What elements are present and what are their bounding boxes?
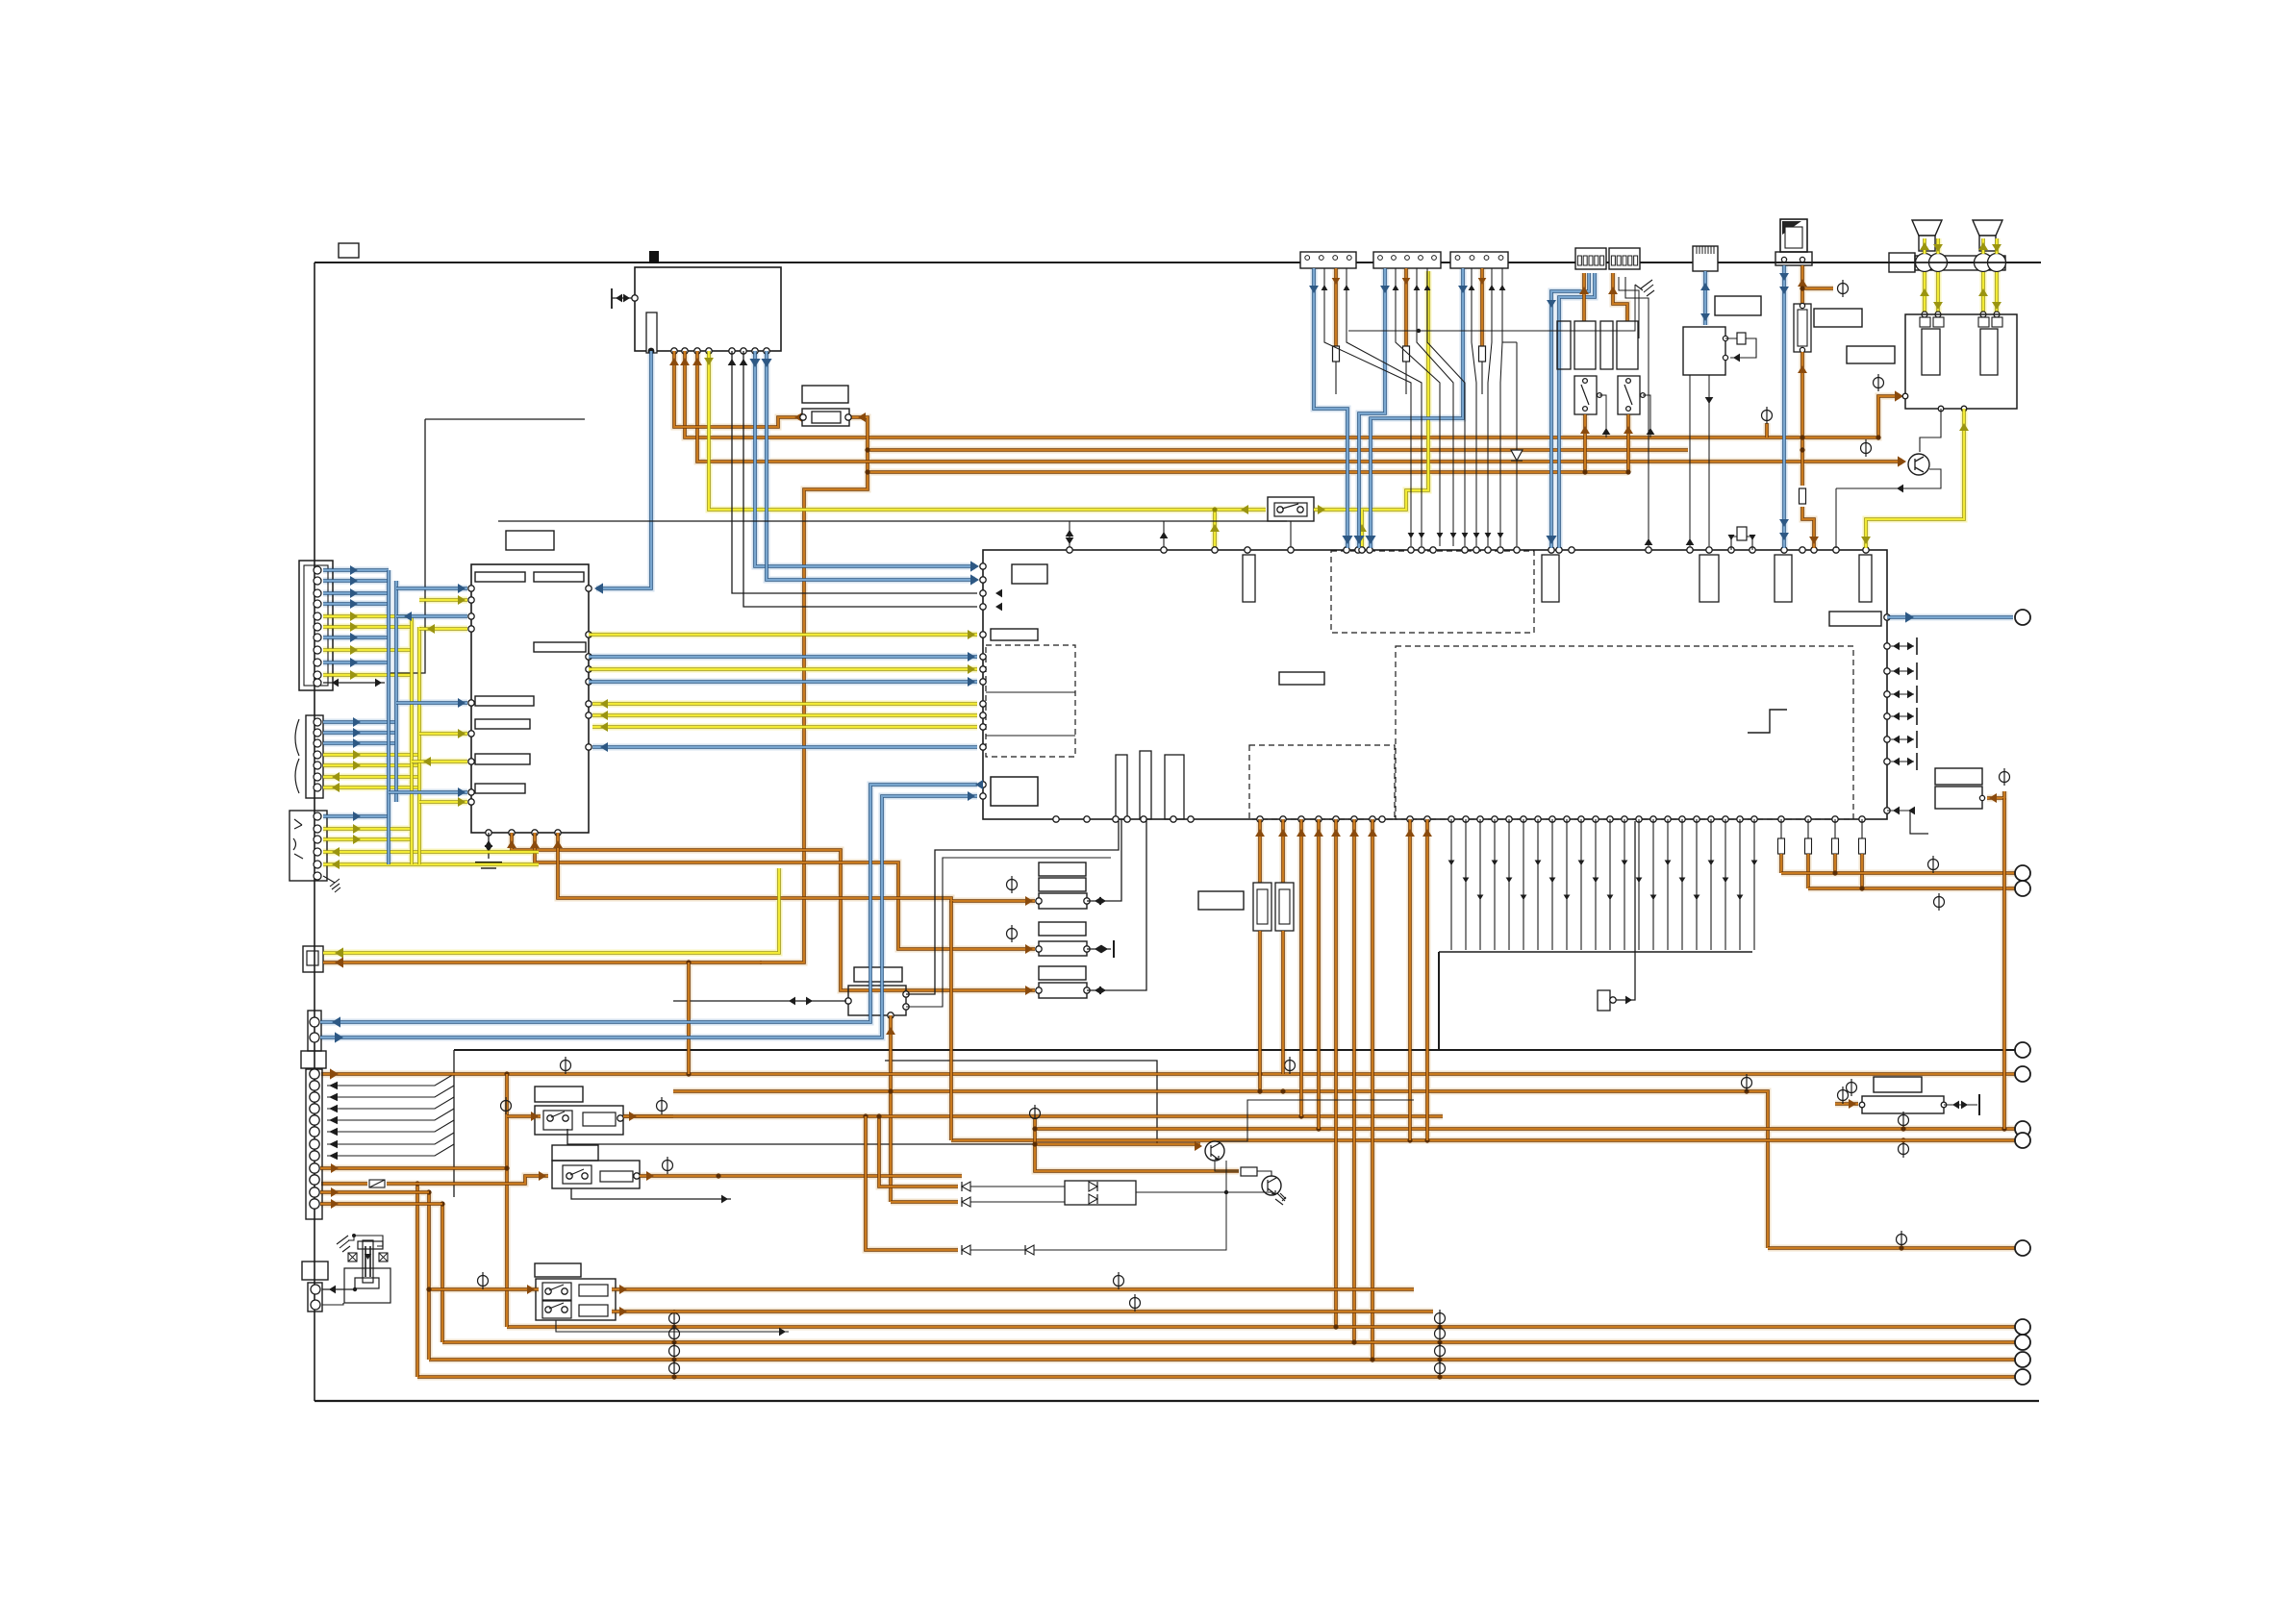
pins U2 bottom bbox=[486, 830, 561, 836]
wire yellow Y1 branch2 to main pin bbox=[1360, 510, 1364, 548]
pin R2 right bbox=[845, 414, 851, 420]
wire orange K2 line bbox=[323, 961, 762, 964]
wire blue riser bus2 bbox=[394, 581, 398, 802]
crystal X1 bbox=[1737, 333, 1746, 344]
label SW3 bbox=[552, 1145, 598, 1161]
wire top bus right end bbox=[1812, 262, 2041, 263]
resistor U3 top R0 bbox=[1243, 555, 1255, 602]
wire orange O-a U1 pin to R2 bbox=[674, 351, 799, 427]
wire blue riser bus1 bbox=[387, 570, 390, 864]
test point bottom L0 bbox=[669, 1310, 680, 1327]
arrowhead J5 p1 bbox=[329, 1286, 336, 1294]
wire orange line A 1117 bbox=[321, 1072, 2015, 1076]
pins P6 bbox=[1781, 257, 1804, 262]
wire control branch 1112 bbox=[1069, 521, 1070, 548]
wire orange O2 line bbox=[868, 448, 1688, 452]
arrowhead stack3 o1 bbox=[1095, 987, 1101, 995]
wire yellow J3 stub 862 bbox=[323, 827, 412, 831]
arrowhead R3 up bbox=[1798, 365, 1807, 373]
arrowhead R2 out bbox=[858, 412, 866, 422]
wire orange P stub 1389 bbox=[1334, 268, 1338, 346]
wire J up2 bbox=[906, 858, 1111, 1007]
wire SW1 sense bbox=[1290, 521, 1292, 548]
arrowhead blue conn 1366 bbox=[1309, 286, 1319, 293]
arrowhead pin7 up bbox=[740, 359, 748, 365]
node E right bbox=[1901, 1137, 1905, 1142]
arrowhead drop 1334 bbox=[1278, 829, 1288, 837]
resistor drop R b body bbox=[1279, 889, 1290, 924]
wire yellow Y1 U1 to switch SW1 bbox=[709, 351, 1266, 510]
node Y1 branch bbox=[1212, 507, 1217, 512]
connector J5 body bbox=[308, 1283, 322, 1312]
wire yellow feed U2 801 bbox=[412, 760, 467, 763]
wire orange bottom line 3 y1432 bbox=[417, 1375, 2015, 1379]
mech bracket inner bbox=[355, 1278, 379, 1288]
arrowhead P6 b1 bbox=[1779, 273, 1789, 281]
arrowhead J1 689 bbox=[350, 658, 358, 667]
arrowhead U2 824 bbox=[458, 787, 466, 797]
arrowhead K2 y bbox=[335, 947, 343, 958]
connector P1 bbox=[1300, 252, 1356, 268]
wire orange drop 1334 bbox=[1281, 819, 1285, 883]
arrowhead SW4 ob bbox=[619, 1307, 627, 1316]
resistor R2 body bbox=[812, 412, 841, 423]
arrowhead line B bbox=[1849, 1099, 1856, 1109]
wire P stub cont 1462 bbox=[1405, 362, 1407, 394]
wire yellow spk 2001 dn bbox=[1923, 272, 1926, 314]
wire control line over U2 bbox=[498, 520, 1287, 522]
wire mech link bbox=[354, 1283, 356, 1289]
relay RL2 coil bbox=[1617, 321, 1638, 369]
node SW3 out bbox=[716, 1173, 720, 1178]
wire orange line G 908 bbox=[1781, 871, 2015, 875]
node bottom L0 bbox=[671, 1324, 676, 1329]
wire orange U6 drop bbox=[2002, 798, 2006, 1129]
arrowhead K3 2 bbox=[335, 1032, 343, 1042]
node A x716 bbox=[686, 1071, 691, 1076]
wire P stub cont 1541 bbox=[1481, 362, 1483, 394]
label J box bbox=[854, 967, 902, 982]
wire K1 up bbox=[1616, 821, 1635, 1000]
wire control stub S2 bbox=[571, 1188, 731, 1199]
IC stack3 box bbox=[1039, 983, 1087, 998]
test point bottom R2 bbox=[1435, 1342, 1446, 1360]
wire yellow feed U2 763 bbox=[419, 732, 467, 736]
wire glow underlayer bbox=[320, 238, 2015, 1377]
wire orange drop 1484 bbox=[1425, 819, 1429, 1140]
dashed divider 2 bbox=[986, 735, 1075, 737]
pins J3 bbox=[314, 812, 321, 868]
label stack3 a bbox=[1039, 966, 1086, 980]
pins J4 bbox=[310, 1069, 319, 1209]
diode D3 bbox=[962, 1197, 970, 1207]
wire orange RL1 up bbox=[1583, 414, 1587, 472]
node bus tap mark bbox=[649, 251, 659, 263]
wire Q2 collector bbox=[1215, 1100, 1414, 1141]
arrowhead spk 2001 a bbox=[1920, 242, 1929, 250]
wire Q1 out bbox=[1836, 469, 1941, 488]
wire stack3 out bbox=[1087, 819, 1146, 990]
arrowhead J2y 785 bbox=[353, 750, 361, 760]
wire fader out bbox=[1944, 1104, 1977, 1106]
node D x2084 bbox=[2001, 1126, 2006, 1131]
connector K2 box bbox=[303, 946, 323, 972]
label above U2 bbox=[506, 531, 554, 550]
wire orange line D 1174 bbox=[1035, 1127, 2015, 1131]
wire yellow J2 stub 796 bbox=[323, 763, 419, 767]
wire yellow riser bus1 bbox=[410, 616, 414, 864]
wire orange P6 drop bbox=[1800, 265, 1804, 304]
pins fader bbox=[1859, 1102, 1947, 1108]
arrowhead J1 gnd r bbox=[375, 679, 382, 687]
resistor drop R a body bbox=[1257, 889, 1268, 924]
arrowhead J3 b bbox=[353, 812, 361, 821]
pins U3 right bbox=[1884, 614, 1890, 813]
node riser 446 bbox=[426, 1189, 431, 1194]
arrowhead ctl stub bbox=[721, 1195, 728, 1204]
arrowhead J1 gnd l bbox=[332, 679, 339, 687]
pins J bbox=[845, 991, 909, 1018]
terminal bottom 0 bbox=[2015, 1319, 2030, 1335]
arrowhead J3yl 899 bbox=[332, 860, 340, 869]
test point SW4 oa bbox=[1114, 1272, 1124, 1289]
wire yellow spk 2076 up bbox=[1995, 238, 1999, 254]
resistor SW4 a bbox=[579, 1285, 608, 1296]
arrowhead y756 bbox=[600, 722, 608, 732]
arrowhead J1y 652 bbox=[350, 622, 358, 632]
wire orange SW3 feed a bbox=[321, 1182, 367, 1186]
node SW4 in bbox=[426, 1287, 431, 1291]
arrowhead Y1 right bbox=[1318, 505, 1325, 514]
arrowhead drop 1466 bbox=[1405, 829, 1415, 837]
test point G bbox=[1928, 856, 1939, 873]
wire blue J1 stub 689 bbox=[323, 661, 389, 664]
test point TP-O1b bbox=[1762, 407, 1773, 424]
arrowhead U4 loop bbox=[1733, 354, 1740, 362]
wire diode top bbox=[1502, 341, 1517, 343]
wire P4 k2 bbox=[1619, 277, 1639, 338]
arrowhead spk 2001 b bbox=[1920, 288, 1929, 296]
arrowhead K1 bbox=[1625, 996, 1632, 1005]
resistor U3 top R3 bbox=[1775, 555, 1792, 602]
arrowhead blue pin9 down bbox=[761, 359, 771, 367]
node bottom R1 bbox=[1437, 1339, 1442, 1344]
node riser 460 bbox=[440, 1201, 444, 1206]
wire orange drop 1334b bbox=[1281, 931, 1285, 1074]
arrowhead Y1 left bbox=[1241, 505, 1248, 514]
wire yellow J1 stub 702 bbox=[323, 673, 412, 677]
arrowhead blue main 603 bbox=[970, 574, 979, 585]
fuse row below U3 bbox=[1778, 819, 1866, 854]
arrowhead J1 593 bbox=[350, 565, 358, 575]
dashed block U3 big bbox=[1396, 646, 1853, 819]
wire orange 716 drop bbox=[687, 962, 691, 1074]
test point cluster bbox=[1030, 1105, 1041, 1122]
arrowhead right out bbox=[1905, 612, 1914, 622]
arrowhead P stub 1541 bbox=[1478, 278, 1487, 285]
wire blue U1 pin8 to main bbox=[755, 351, 975, 566]
fuse P 1541 bbox=[1479, 346, 1486, 362]
arrowhead cluster T1 bbox=[1195, 1141, 1202, 1151]
label R2 value box bbox=[802, 386, 848, 403]
test point SW2 R bbox=[657, 1097, 667, 1114]
fuse F2 bbox=[1800, 488, 1806, 504]
pin J3 g bbox=[314, 872, 321, 880]
pin U5 left bbox=[1902, 393, 1908, 399]
wire orange riser 527 bbox=[505, 1074, 509, 1327]
bracket U3 right bbox=[1910, 811, 1928, 834]
antenna symbol bar bbox=[611, 288, 613, 309]
arrowhead O1 into box C bbox=[1895, 390, 1903, 401]
arrowhead U2 641 bbox=[404, 612, 412, 621]
pins U2 left bbox=[468, 586, 474, 805]
wire P stub cont 1389 bbox=[1335, 362, 1337, 394]
wire yellow spk 2001 up bbox=[1923, 238, 1926, 254]
arrowhead SW4 sense bbox=[779, 1328, 786, 1337]
wire orange U2 p4 to stack1 bbox=[558, 833, 1035, 901]
node bottom R3 bbox=[1437, 1374, 1442, 1379]
test point fader bbox=[1847, 1079, 1857, 1096]
arrowhead stack1 o2 bbox=[1099, 897, 1106, 906]
pin R3 mid bbox=[1801, 447, 1803, 449]
motor plunger cap bbox=[358, 1241, 383, 1249]
resistor R3 body bbox=[1798, 310, 1807, 346]
pins U3 top bbox=[1067, 547, 1869, 553]
wire blue P1 drop bbox=[1314, 268, 1347, 548]
node mech bbox=[353, 1287, 357, 1291]
resistor U5 a bbox=[1922, 329, 1940, 375]
pin SW2 out bbox=[617, 1115, 623, 1121]
connector J1 outer bbox=[299, 561, 333, 690]
wire control branch 1210 bbox=[1163, 521, 1165, 548]
connector J5 top box bbox=[302, 1262, 328, 1280]
wire antenna lead bbox=[612, 297, 633, 299]
arrowhead pin6 up bbox=[728, 359, 737, 365]
transistor Q2 bbox=[1205, 1141, 1224, 1161]
ground symbol Q3 bbox=[1275, 1193, 1286, 1205]
wire mech gnd link bbox=[348, 1236, 354, 1240]
test point SW2 L bbox=[501, 1097, 512, 1114]
arrowhead into stack2 bbox=[1025, 944, 1033, 954]
wire yellow J1 stub 641 bbox=[323, 614, 412, 618]
arrowhead U4 d1 bbox=[1686, 538, 1695, 545]
arrowhead antenna right bbox=[623, 294, 630, 303]
arrowhead J3y 873 bbox=[353, 835, 361, 844]
terminal line D bbox=[2015, 1121, 2030, 1137]
arrowhead Q1 out bbox=[1897, 485, 1903, 493]
connector stubs U5 top bbox=[1920, 317, 2002, 327]
connector small K1 bbox=[1598, 990, 1610, 1011]
wire orange drop 1310b bbox=[1258, 931, 1262, 1091]
pins SW3 bbox=[566, 1173, 588, 1179]
arrowhead blue drop 1425 bbox=[1365, 536, 1375, 544]
label drop resistors bbox=[1198, 891, 1244, 910]
pin U6 right bbox=[1979, 795, 1984, 800]
wire blue feed U2 641 bbox=[396, 614, 467, 618]
pin RL2 side bbox=[1641, 393, 1646, 398]
resistor SW2 bbox=[583, 1112, 616, 1126]
arrowhead Y1 branch up bbox=[1210, 524, 1220, 532]
wire SW2 lever bbox=[551, 1112, 565, 1117]
node C x1353 bbox=[1298, 1113, 1303, 1118]
pins RL2 bbox=[1626, 379, 1631, 412]
arrowhead y696 bbox=[968, 664, 975, 674]
connector P5 rj45 bbox=[1693, 246, 1718, 271]
connector P4b bbox=[1609, 248, 1640, 269]
transistor Q3 bbox=[1262, 1176, 1281, 1195]
connector P6 base bbox=[1775, 252, 1812, 265]
crystal mark left bbox=[348, 1253, 357, 1262]
arrowhead SW3 in bbox=[539, 1171, 546, 1181]
arrowhead RL1 up bbox=[1580, 426, 1590, 434]
wire orange riser 434 bbox=[415, 1184, 419, 1377]
pins SW2 bbox=[547, 1115, 568, 1121]
arrowhead J3yl 886 bbox=[332, 847, 340, 857]
wire orange drop 1466 bbox=[1408, 819, 1412, 1140]
wire blue U3 right out bbox=[1887, 615, 2013, 619]
arrowhead blue drop 1413 bbox=[1353, 536, 1364, 544]
relay RL1 contact bbox=[1574, 376, 1597, 414]
resistor SW3 bbox=[600, 1171, 633, 1182]
wire blue P5 drop bbox=[1703, 271, 1707, 325]
wire orange fader stub bbox=[1835, 1102, 1858, 1106]
relay RL2 contact bbox=[1618, 376, 1640, 414]
jack symbol J3 bbox=[293, 819, 303, 859]
pins K3 bbox=[310, 1017, 319, 1042]
wire fan bus to connector J4 bbox=[327, 1050, 454, 1197]
arrowhead blue conn 1440 bbox=[1380, 286, 1390, 293]
node RL1 tap bbox=[1582, 469, 1587, 474]
switch SW4 outer bbox=[536, 1279, 616, 1320]
test point D right bbox=[1899, 1112, 1909, 1129]
arrowhead drop 1427 bbox=[1368, 829, 1377, 837]
arrowhead U2 p3 up bbox=[530, 840, 540, 848]
pins U4 bbox=[1723, 336, 1727, 360]
wire U1 pin7 to main left pin bbox=[743, 351, 977, 607]
wire orange drop 1408 bbox=[1352, 819, 1356, 1342]
resistor drop R a bbox=[1253, 883, 1271, 931]
wire SW4 sense bbox=[556, 1320, 789, 1332]
pins speaker bar bbox=[1916, 254, 2006, 272]
wire J1 gnd stub bbox=[323, 682, 385, 684]
switch SW4 lever box a bbox=[542, 1283, 571, 1300]
display icon bbox=[1780, 219, 1807, 252]
wire blue U1 pin1 to box B bbox=[596, 351, 651, 588]
wire blue J2 stub 751 bbox=[323, 720, 396, 724]
wire U4 down2 bbox=[1708, 375, 1710, 546]
test point SW3 R bbox=[663, 1157, 673, 1174]
wire blue J1 stub 617 bbox=[323, 591, 389, 595]
dashed block U3 left bbox=[986, 645, 1075, 757]
node G 1908 bbox=[1832, 870, 1837, 875]
test point H bbox=[1934, 893, 1945, 911]
arrowhead P4 r2 bbox=[1608, 287, 1618, 294]
test point bottom R3 bbox=[1435, 1360, 1446, 1377]
ground symbol mech bbox=[337, 1236, 350, 1252]
wire orange O3 U1 to transistor bbox=[697, 351, 1902, 462]
node bottom L3 bbox=[671, 1374, 676, 1379]
wire orange P stub 1462 bbox=[1404, 268, 1408, 346]
pin SW3 out bbox=[634, 1173, 640, 1179]
node cluster D bbox=[1032, 1126, 1037, 1131]
node O1-mon bbox=[1800, 435, 1804, 439]
wire orange J feed bbox=[889, 1015, 893, 1202]
resistor U3 bot R3 bbox=[1165, 755, 1184, 819]
test point Q1 bbox=[1861, 439, 1872, 457]
arrowhead U5 y bbox=[1861, 537, 1871, 544]
connector speaker empty bbox=[1889, 253, 1915, 272]
arrowhead b709 bbox=[968, 677, 975, 687]
connector J4 body bbox=[306, 1069, 322, 1219]
wire blue J1 stub 663 bbox=[323, 636, 389, 639]
wire orange bottom line 1 y1396 bbox=[442, 1340, 2015, 1344]
connector speaker bar bbox=[1915, 256, 2005, 270]
wire orange drop f4 bbox=[1860, 854, 1864, 888]
node bottom L2 bbox=[671, 1357, 676, 1362]
arrowhead spk 2015 b bbox=[1933, 302, 1943, 310]
wire page frame left vertical bbox=[314, 262, 315, 1401]
wire blue J1 stub 604 bbox=[323, 579, 389, 583]
wire comb bus of U3 bottom signals bbox=[1448, 819, 1758, 950]
arrowhead into main 617 bbox=[995, 589, 1002, 598]
IC U1 tuner block bbox=[635, 267, 781, 351]
wire diode link3 bbox=[970, 1249, 1025, 1251]
arrowhead P4 b1 bbox=[1546, 536, 1556, 544]
wire orange SW3 out bbox=[640, 1174, 962, 1178]
wire U4 down1 bbox=[1689, 375, 1691, 546]
node drop1310 bbox=[1257, 1088, 1262, 1093]
arrowhead P5 d bbox=[1700, 313, 1710, 321]
wire blue J2 stub 762 bbox=[323, 731, 396, 735]
label SW4 bbox=[535, 1263, 581, 1277]
arrowhead U4 d2 bbox=[1705, 397, 1714, 404]
wire blue P4 drop1 bbox=[1551, 273, 1589, 548]
arrowhead spk 2062 a bbox=[1978, 242, 1988, 250]
arrowhead SW3 out bbox=[646, 1171, 654, 1181]
wire blue U2-main 709 bbox=[589, 680, 977, 684]
wire P4 k1 bbox=[1625, 277, 1649, 546]
speaker horn 2 bbox=[1973, 220, 2002, 251]
node mech gnd bbox=[352, 1234, 356, 1237]
node F right bbox=[1899, 1245, 1903, 1250]
label U2 c bbox=[534, 642, 586, 652]
pins J5 bbox=[311, 1285, 320, 1310]
arrowhead SW2 in bbox=[531, 1112, 539, 1121]
wire stack1 out bbox=[1087, 900, 1116, 902]
arrowhead K3 1 bbox=[332, 1016, 340, 1027]
wire orange bottom line 2 y1414 bbox=[429, 1358, 2015, 1362]
arrowhead P6 b3 bbox=[1779, 519, 1789, 527]
wire yellow spk 2015 dn bbox=[1936, 272, 1940, 314]
arrowhead U1 pin4 up bbox=[692, 358, 702, 365]
arrowhead SW2 out bbox=[629, 1112, 637, 1121]
arrowhead SW4 oa bbox=[619, 1285, 627, 1294]
arrowhead ctl dn bbox=[1066, 537, 1074, 544]
arrowhead U1 pin3 up bbox=[680, 358, 690, 365]
wire blue K3 line1 bbox=[320, 785, 977, 1022]
ground symbol J3 bbox=[330, 879, 340, 892]
wire Q2 base drop bbox=[1225, 1161, 1227, 1192]
arrowhead P4 b2 bbox=[1547, 300, 1556, 308]
arrowhead P6 b4 bbox=[1779, 533, 1789, 540]
node top O1 end bbox=[1876, 435, 1880, 439]
node A x1310 bbox=[1257, 1071, 1262, 1076]
arrowhead O3 into Q1 bbox=[1898, 456, 1906, 466]
wire orange line C 1161 bbox=[623, 1114, 1443, 1118]
arrowhead y660 bbox=[968, 630, 975, 639]
wire orange U2 p3 to stack2 bbox=[535, 833, 1035, 949]
wire fan top connectors to U3 bbox=[1322, 268, 1506, 546]
